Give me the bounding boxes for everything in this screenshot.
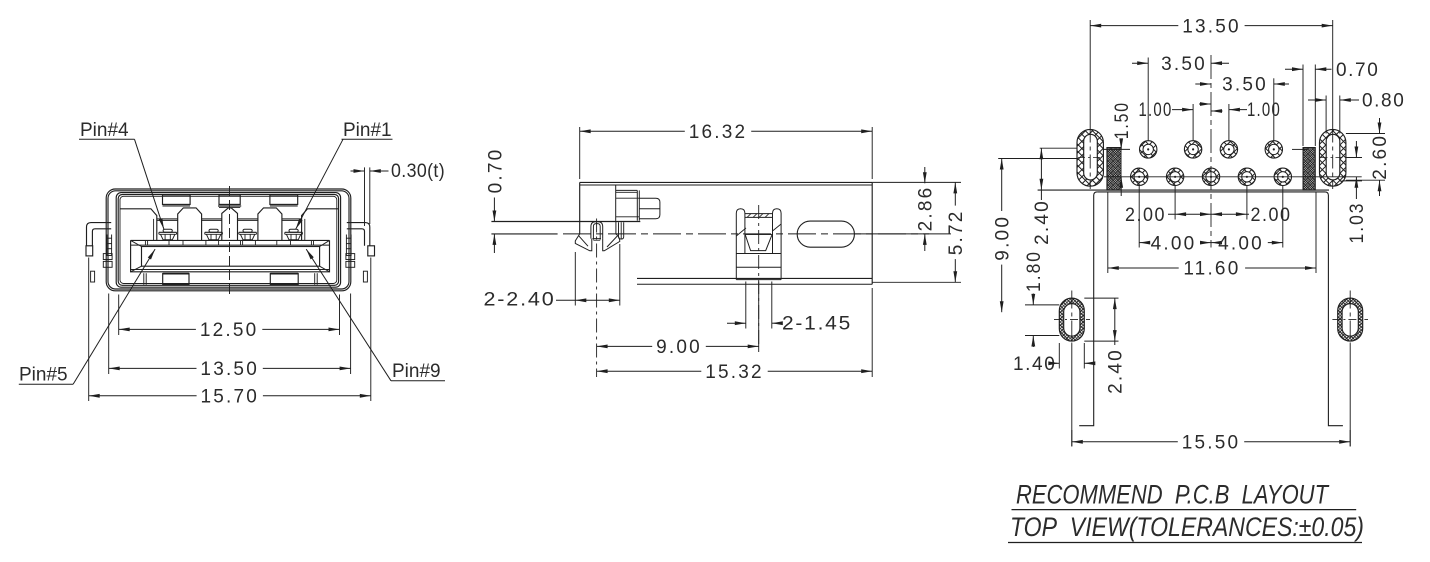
left shell side tabs: [103, 254, 112, 260]
svg-text:13.50: 13.50: [1182, 16, 1241, 37]
pad oval bottom-left: [1059, 298, 1084, 341]
side clip funnel: [745, 234, 773, 251]
svg-text:0.70: 0.70: [1336, 60, 1379, 81]
svg-text:1.50: 1.50: [1112, 101, 1133, 139]
svg-text:1.03: 1.03: [1347, 202, 1368, 244]
svg-text:RECOMMEND P.C.B LAYOUT: RECOMMEND P.C.B LAYOUT: [1016, 480, 1330, 510]
dimension 2.40 left: [1040, 147, 1077, 149]
svg-text:0.30(t): 0.30(t): [391, 161, 445, 182]
svg-text:9.00: 9.00: [656, 337, 702, 358]
pcb body outline: [1097, 192, 1343, 426]
tongue bevel frame: [131, 240, 330, 271]
contact pin 1 (rightmost): [289, 229, 298, 232]
svg-text:TOP VIEW(TOLERANCES:±0.05): TOP VIEW(TOLERANCES:±0.05): [1010, 512, 1364, 542]
svg-text:2.00: 2.00: [1125, 205, 1166, 226]
separator tower center: [222, 208, 238, 240]
dimension 1.00 right: [1228, 104, 1230, 141]
front extension lines: [118, 295, 120, 336]
dimension 11.60: [1107, 192, 1109, 273]
left mount arm: [87, 223, 112, 246]
svg-text:2.00: 2.00: [1251, 205, 1292, 226]
side solder pin stub: [639, 198, 660, 219]
svg-text:Pin#9: Pin#9: [392, 361, 441, 382]
side claw rear tab: [619, 222, 624, 239]
svg-text:Pin#5: Pin#5: [19, 365, 68, 386]
dimension 15.70: [89, 395, 197, 397]
svg-text:15.50: 15.50: [1182, 433, 1241, 454]
dimension 2.60: [1346, 133, 1385, 135]
left arm solder box: [86, 246, 93, 256]
separator tower 3: [258, 208, 282, 240]
svg-text:16.32: 16.32: [689, 122, 748, 143]
dimension 15.32: [871, 288, 873, 377]
svg-text:5.72: 5.72: [946, 210, 967, 256]
shell top dimple center: [219, 195, 240, 204]
dimension 2-2.40: [574, 252, 576, 306]
side front block: [579, 182, 581, 234]
tongue top strip with segment ticks: [131, 239, 330, 241]
dimension 1.40: [1058, 343, 1060, 369]
svg-text:1.00: 1.00: [1139, 100, 1173, 121]
svg-text:0.70: 0.70: [486, 148, 507, 194]
dimension 3.50 left: [1147, 58, 1149, 142]
svg-text:4.00: 4.00: [1151, 233, 1197, 254]
dimension 0.70 pcb: [1302, 65, 1304, 147]
svg-text:15.70: 15.70: [201, 387, 260, 408]
svg-text:12.50: 12.50: [200, 320, 259, 341]
svg-text:2-1.45: 2-1.45: [782, 314, 852, 335]
crosshatch strip right: [1303, 148, 1315, 191]
left contact guide wall: [120, 209, 157, 241]
svg-text:13.50: 13.50: [200, 359, 259, 380]
front view inner shell: [116, 193, 340, 288]
pcb main centerline: [1210, 55, 1212, 248]
separator tower 1: [178, 208, 202, 240]
side claw middle tab: [591, 222, 603, 239]
dimension 2-1.45: [745, 282, 747, 329]
dimension 3.50 right: [1273, 78, 1275, 141]
right mount arm: [347, 223, 370, 246]
front view vertical centerline: [229, 186, 231, 297]
shell top dimple left: [163, 195, 191, 204]
claw centerline: [596, 219, 598, 378]
crosshatch strip left: [1107, 148, 1121, 191]
svg-text:Pin#4: Pin#4: [80, 120, 129, 141]
dimension 1.03: [1346, 157, 1362, 159]
side horizontal lead: [491, 221, 640, 223]
dimension 16.32: [579, 127, 581, 179]
dimension 4.00 right: [1282, 186, 1284, 248]
pad hatch oval top-left: [1077, 129, 1103, 186]
hole row lines: [1103, 148, 1130, 150]
svg-text:11.60: 11.60: [1183, 259, 1240, 280]
contact channel back wall: [157, 218, 178, 220]
dimension 13.50 pcb: [1090, 25, 1178, 27]
svg-text:3.50: 3.50: [1161, 54, 1207, 75]
svg-text:9.00: 9.00: [992, 215, 1013, 261]
dimension 4.00 left: [1138, 186, 1140, 248]
pcb outline top edge: [1038, 189, 1329, 191]
dimension 1.80: [1025, 304, 1059, 306]
side claw left prong: [575, 234, 592, 251]
dimension 2.86: [872, 181, 961, 183]
side clip bars: [736, 253, 781, 255]
side view centerline: [563, 233, 951, 235]
svg-text:1.80: 1.80: [1024, 250, 1045, 292]
right shell seam strip: [345, 235, 347, 257]
dimension 0.70 side: [493, 198, 495, 222]
dimension 2.40 bottom: [1084, 297, 1118, 299]
contact pin 4 (leftmost): [163, 229, 172, 232]
left shell seam strip: [106, 235, 108, 257]
dimension 12.50: [119, 328, 196, 330]
side claw right prong: [603, 222, 620, 251]
pad oval bottom-right: [1338, 298, 1363, 341]
svg-text:2.40: 2.40: [1032, 199, 1053, 245]
svg-text:2.60: 2.60: [1370, 134, 1391, 180]
dimension 0.30(t): [364, 167, 366, 226]
clip centerline: [758, 205, 760, 348]
shell bottom seam ticks: [143, 273, 145, 284]
dimension 15.50: [1071, 430, 1073, 447]
dimension 5.72: [872, 281, 961, 283]
svg-text:2.86: 2.86: [916, 186, 937, 232]
svg-text:0.80: 0.80: [1362, 91, 1405, 112]
shell bottom dimple left: [163, 274, 189, 285]
pad hatch oval top-right: [1320, 129, 1346, 186]
shell top dimple right: [270, 195, 298, 204]
svg-text:4.00: 4.00: [1218, 233, 1264, 254]
svg-text:Pin#1: Pin#1: [343, 120, 392, 141]
right arm solder box: [368, 246, 375, 256]
dimension 0.80 pcb: [1325, 96, 1327, 134]
contact pin 3: [209, 229, 218, 232]
front view outer shell: [106, 189, 351, 291]
right contact guide wall: [302, 209, 339, 241]
dimension 9.00 pcb: [997, 158, 999, 160]
svg-text:3.50: 3.50: [1222, 75, 1268, 96]
oval center marks: [1089, 20, 1091, 129]
side view body outline: [580, 181, 873, 183]
svg-text:2.40: 2.40: [1106, 348, 1127, 394]
svg-text:2-2.40: 2-2.40: [484, 290, 556, 311]
dimension 1.00 left: [1192, 104, 1194, 141]
svg-text:1.00: 1.00: [1247, 100, 1281, 121]
side clip: [736, 209, 745, 280]
hole row bottom (5 holes): [1131, 168, 1148, 185]
shell bottom dimple right: [270, 274, 298, 285]
dimension 9.00 side: [758, 282, 760, 353]
svg-text:15.32: 15.32: [705, 362, 764, 383]
hole row top (4 holes): [1140, 141, 1157, 158]
contact pin 2: [243, 229, 252, 232]
side oval slot: [797, 221, 854, 247]
right shell side tabs: [346, 254, 355, 260]
dimension 13.50: [109, 367, 197, 369]
